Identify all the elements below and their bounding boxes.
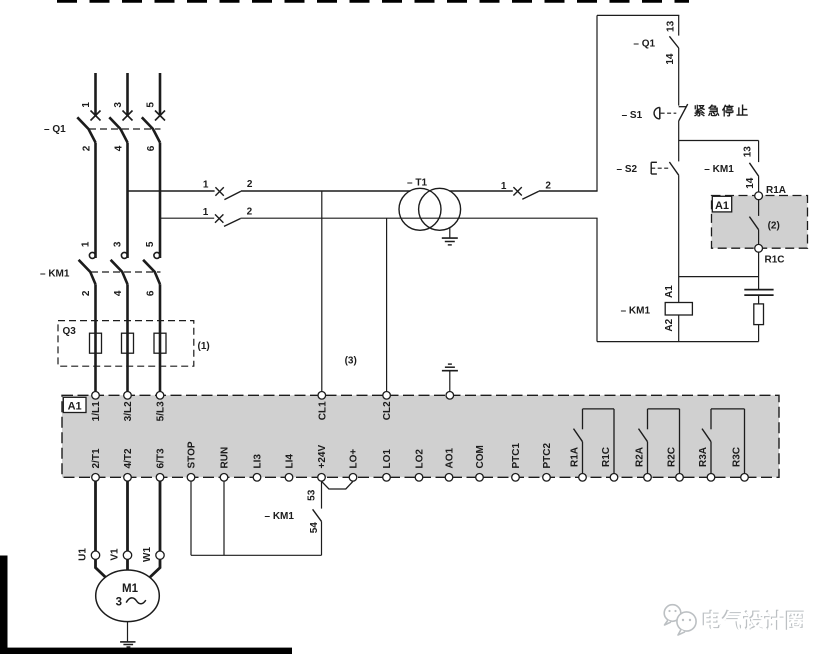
- svg-text:– T1: – T1: [407, 177, 427, 188]
- svg-text:4/T2: 4/T2: [123, 448, 134, 468]
- svg-text:– KM1: – KM1: [265, 511, 295, 522]
- svg-text:– KM1: – KM1: [621, 306, 651, 317]
- svg-text:– Q1: – Q1: [633, 38, 655, 49]
- svg-text:LI3: LI3: [253, 454, 264, 469]
- svg-text:5: 5: [145, 102, 156, 108]
- svg-text:(1): (1): [198, 341, 210, 352]
- svg-text:6/T3: 6/T3: [156, 448, 167, 468]
- svg-text:6: 6: [146, 145, 157, 151]
- svg-text:COM: COM: [475, 445, 486, 468]
- svg-text:53: 53: [307, 489, 318, 501]
- svg-text:R3C: R3C: [732, 447, 743, 467]
- svg-text:CL2: CL2: [382, 401, 393, 420]
- svg-text:R1C: R1C: [765, 254, 785, 265]
- svg-text:2: 2: [247, 179, 253, 190]
- svg-text:PTC1: PTC1: [511, 443, 522, 469]
- svg-text:CL1: CL1: [317, 401, 328, 420]
- svg-text:5: 5: [145, 241, 156, 247]
- svg-text:+24V: +24V: [317, 445, 328, 469]
- svg-text:V1: V1: [110, 548, 121, 561]
- svg-text:3: 3: [113, 102, 124, 108]
- svg-text:4: 4: [113, 145, 124, 151]
- svg-text:电气设计圈: 电气设计圈: [702, 610, 807, 634]
- svg-text:LO2: LO2: [415, 449, 426, 469]
- svg-text:AO1: AO1: [445, 448, 456, 469]
- svg-text:1: 1: [81, 241, 92, 247]
- svg-text:R2A: R2A: [635, 447, 646, 467]
- svg-text:2/T1: 2/T1: [91, 448, 102, 468]
- svg-text:1: 1: [203, 207, 209, 218]
- svg-text:R3A: R3A: [698, 447, 709, 467]
- svg-text:4: 4: [113, 290, 124, 296]
- svg-text:5/L3: 5/L3: [156, 401, 167, 421]
- svg-text:2: 2: [81, 145, 92, 151]
- svg-text:(3): (3): [345, 356, 357, 367]
- svg-text:– S2: – S2: [617, 164, 638, 175]
- svg-text:R2C: R2C: [667, 447, 678, 467]
- svg-text:2: 2: [247, 206, 253, 217]
- svg-text:紧急停止: 紧急停止: [694, 103, 751, 118]
- svg-text:LO+: LO+: [349, 449, 360, 469]
- svg-text:– KM1: – KM1: [40, 268, 70, 279]
- svg-text:3/L2: 3/L2: [123, 401, 134, 421]
- svg-text:PTC2: PTC2: [542, 443, 553, 469]
- svg-text:R1C: R1C: [601, 447, 612, 467]
- svg-text:RUN: RUN: [220, 447, 231, 469]
- svg-text:A2: A2: [664, 318, 675, 331]
- svg-text:R1A: R1A: [766, 185, 786, 196]
- svg-text:– Q1: – Q1: [44, 124, 66, 135]
- svg-text:A1: A1: [664, 285, 675, 298]
- svg-text:(2): (2): [768, 221, 780, 232]
- svg-text:R1A: R1A: [570, 447, 581, 467]
- svg-text:STOP: STOP: [187, 441, 198, 468]
- svg-text:– KM1: – KM1: [704, 164, 734, 175]
- svg-text:1: 1: [81, 102, 92, 108]
- svg-text:W1: W1: [142, 547, 153, 562]
- svg-text:14: 14: [665, 53, 676, 65]
- svg-text:2: 2: [545, 180, 551, 191]
- svg-text:LO1: LO1: [382, 449, 393, 469]
- svg-text:– S1: – S1: [622, 110, 643, 121]
- svg-text:54: 54: [309, 522, 320, 534]
- svg-text:1: 1: [203, 180, 209, 191]
- svg-text:1/L1: 1/L1: [91, 401, 102, 421]
- svg-text:13: 13: [666, 20, 677, 32]
- svg-text:3: 3: [116, 597, 122, 609]
- svg-text:M1: M1: [122, 583, 139, 595]
- svg-text:2: 2: [81, 290, 92, 296]
- svg-text:6: 6: [145, 290, 156, 296]
- svg-text:1: 1: [501, 181, 507, 192]
- svg-text:LI4: LI4: [285, 454, 296, 469]
- svg-text:13: 13: [743, 146, 754, 158]
- svg-text:A1: A1: [68, 401, 82, 413]
- svg-text:3: 3: [113, 241, 124, 247]
- svg-text:Q3: Q3: [63, 326, 77, 337]
- svg-text:U1: U1: [78, 548, 89, 561]
- svg-text:14: 14: [745, 177, 756, 189]
- svg-text:A1: A1: [715, 200, 729, 212]
